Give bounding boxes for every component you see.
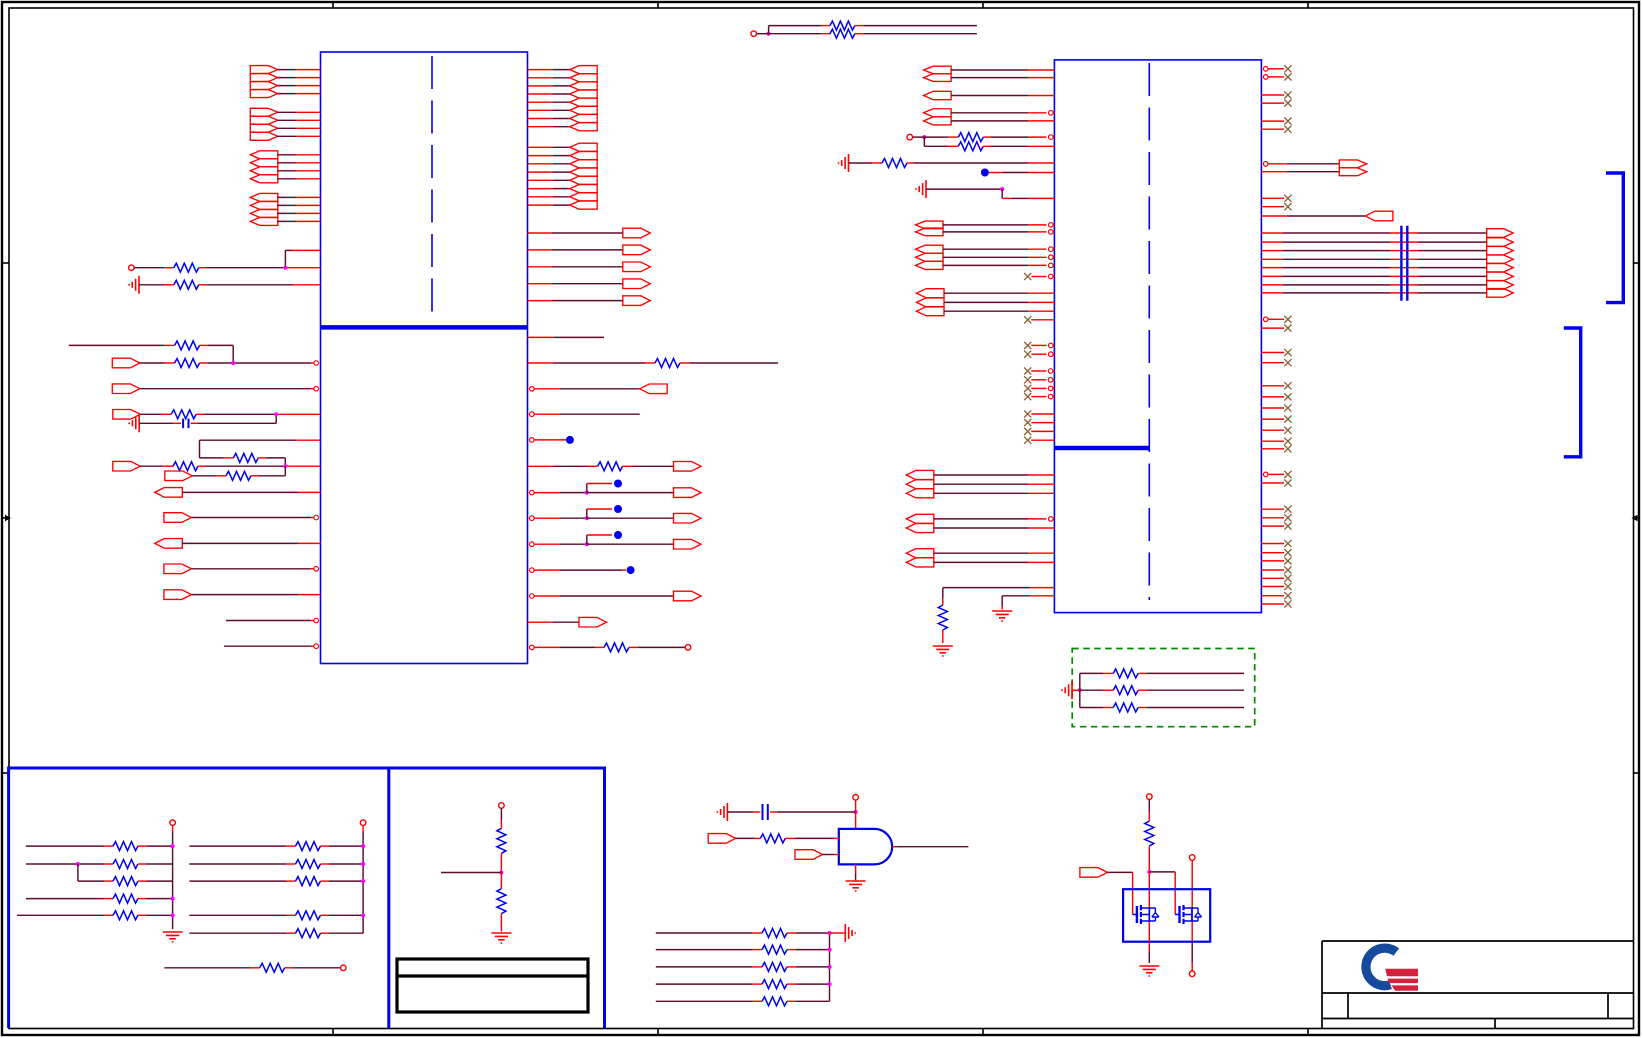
terminal circle J2 [751,31,757,37]
no-connect X trio [1261,506,1291,530]
left border arrow [2,515,11,521]
wire [830,932,846,934]
wire [757,26,769,34]
no-connect X pair [1263,65,1291,80]
wire net upper [69,341,233,363]
U2 left flag pair [906,549,1054,567]
branch wire [77,864,79,881]
resistor R17 [1080,669,1244,678]
no-connect X group [1261,382,1291,452]
no-connect dot [530,566,635,574]
drain wire M1 [1148,872,1150,942]
IC U1 body [321,52,528,664]
source wire M1 [1148,942,1150,963]
connector flag [155,539,321,549]
pin bubble [314,515,319,520]
resistor R24 (vertical) [1145,821,1154,872]
resistor R12 [530,643,691,652]
IC U1 power separator (thick) [321,325,528,330]
ground GND2 [129,414,139,432]
tap wire [441,872,501,874]
right border arrow [1632,515,1641,521]
connector flag [165,471,193,481]
no-connect X pair [1261,471,1291,487]
MOSFET Q2 [1175,905,1201,924]
resistor R11 [528,462,702,472]
revision table box [397,959,588,1012]
ground GND3 [839,154,849,172]
U1 pin wire corner (y250) [285,250,320,267]
resistor R22 (vertical) [497,873,506,932]
junction dot [283,266,287,270]
resistor R7 [200,440,321,466]
connector flag [530,591,702,601]
bus crossing bars [1401,226,1407,301]
wire to ground [1002,596,1054,610]
resistor R2 [139,280,321,289]
U1 left pin group C (4 flags) [250,151,320,183]
ground GND7 [1062,681,1072,699]
output wire [892,846,968,848]
pin with pull dot and flag [530,531,702,549]
U2 right flag [1261,211,1393,221]
pin with pull dot and flag [530,505,702,523]
resistor R23 [736,834,839,843]
capacitor C1 [139,414,276,428]
junction dot [1147,870,1151,874]
ground GND5 [933,646,953,656]
dashed option box [1072,649,1255,727]
gate wire M2 [1149,872,1175,915]
ground GND10 [717,803,727,821]
terminal circle J4 [170,820,176,846]
no-connect dot [981,169,1055,177]
no-connect X group [1024,410,1054,443]
wire with corner [926,187,1054,198]
U1 right pin bundle 1 (8 flags) [528,66,598,131]
U2 left flag [924,91,1055,99]
rail [829,933,831,1001]
U1 right single output flags (5) [528,228,651,305]
bus bracket 1 [1606,173,1623,303]
no-connect X group [1024,367,1054,400]
pull resistor bank 2 (5 resistors) [189,842,363,938]
blue panel border [9,768,605,1028]
terminal circle J3 [907,134,913,140]
ground GND9 [491,933,511,943]
IC U2 body [1054,60,1261,613]
MOSFET package box [1123,889,1210,942]
resistor R16 [938,588,1054,643]
no-connect X pair [1261,91,1291,106]
U2 right bus bundle (8 wires to flags) [1261,229,1513,297]
junction dot [274,412,278,416]
terminal circle J1 [129,265,135,271]
resistor R10 [528,359,779,368]
rail [172,846,174,929]
pull resistor bank 1 (5 resistors) [17,842,173,920]
terminal circle J8 [1147,794,1153,821]
no-connect X group [1261,540,1291,608]
connector flag [113,410,141,420]
wire rail [1072,673,1080,707]
no-connect dot [530,436,574,444]
resistor R1 [134,263,320,272]
MOSFET Q1 [1133,905,1159,924]
connector flag [164,513,317,523]
resistor R19 [1080,703,1244,712]
bus bracket 2 [1564,328,1581,457]
junction dot [1078,688,1082,692]
blue panel divider [387,768,390,1028]
resistor R5 [140,359,317,368]
gate ground pin [855,864,857,880]
U2 left flag pair [924,109,1055,125]
resistor R14 [924,137,1054,151]
terminal circle J9 [1189,855,1195,942]
IC U1 internal dashed divider [431,56,433,320]
company logo [1366,948,1418,991]
no-connect X pair [1261,349,1291,366]
junction dot [854,810,858,814]
no-connect X pair [1024,342,1054,358]
source wire M2 [1191,942,1193,971]
pin bubble [314,386,319,391]
ground GND11 [846,881,866,891]
series resistor bank (5 resistors) [656,929,830,1006]
junction dot [283,464,287,468]
wire [530,412,640,417]
ground GND12 [845,924,855,942]
junction dot [499,870,503,874]
pin bubble [314,567,319,572]
connector flag [164,564,317,574]
resistor R21 (vertical) [497,828,506,872]
U2 right flag pair [1261,160,1366,176]
U2 left flag pair [906,514,1054,532]
junction dot [922,135,926,139]
ground GND6 [992,611,1012,621]
U1 left pin group A (4 flags) [250,66,320,98]
ground GND4 [916,180,926,198]
no-connect X [1024,273,1054,280]
wire [224,645,317,647]
resistor R3 [769,21,977,30]
connector flag [530,384,668,394]
title block frame [1322,941,1634,1029]
connector flag [1080,868,1108,878]
junction dots [361,844,365,917]
no-connect X pair [1261,195,1291,211]
U2 left flag trio [917,289,1055,316]
terminal circle J5 [360,820,366,846]
rail [362,846,364,933]
U2 left flag pair [924,66,1055,81]
pin bubble [314,361,319,366]
connector flag [795,850,839,860]
resistor R13 [913,133,1055,142]
resistor R4 [769,29,977,38]
wire [226,620,317,622]
resistor R6 [140,410,320,419]
connector flag [112,358,140,368]
pin bubble [314,644,319,649]
ground GND8 [163,932,183,942]
IC U2 partial separator (thick) [1054,446,1149,451]
junction dots [76,844,175,917]
connector flag [112,384,316,394]
connector flag [164,590,321,600]
pin bubble [314,618,319,623]
wire [855,812,857,829]
gate wire M1 [1107,872,1132,914]
junction dot [231,361,235,365]
pin with pull dot and flag [530,480,702,498]
resistor R9 [192,466,285,480]
junction dots [827,931,831,986]
wire [528,336,605,338]
connector flag [113,461,141,471]
resistor R20 [164,963,346,972]
junction dot [767,32,771,36]
U1 left pin group D (4 flags) [250,193,320,225]
terminal circle J7 [853,795,859,813]
AND gate U3 [839,829,892,865]
U2 left flag trio [906,470,1054,497]
connector flag [155,488,321,498]
no-connect X pair [1261,118,1291,133]
connector flag [708,834,736,844]
U1 left pin group B (4 flags) [250,108,320,140]
no-connect X [1024,316,1054,323]
connector flag [528,617,607,627]
terminal circle J10 [1189,971,1195,977]
IC U2 internal dashed divider [1148,63,1150,600]
U2 left flag trio [916,245,1055,269]
U2 left flag pair [916,221,1055,236]
ground GND13 [1139,966,1159,976]
resistor R8 [140,462,320,471]
resistor R15 [849,159,1055,168]
no-connect X pair [1261,316,1291,332]
terminal circle J6 [499,803,505,829]
ground GND1 [129,276,139,294]
U1 right pin bundle 2 (8 flags) [528,143,598,209]
capacitor C2 [727,804,855,820]
resistor R18 [1080,686,1244,695]
